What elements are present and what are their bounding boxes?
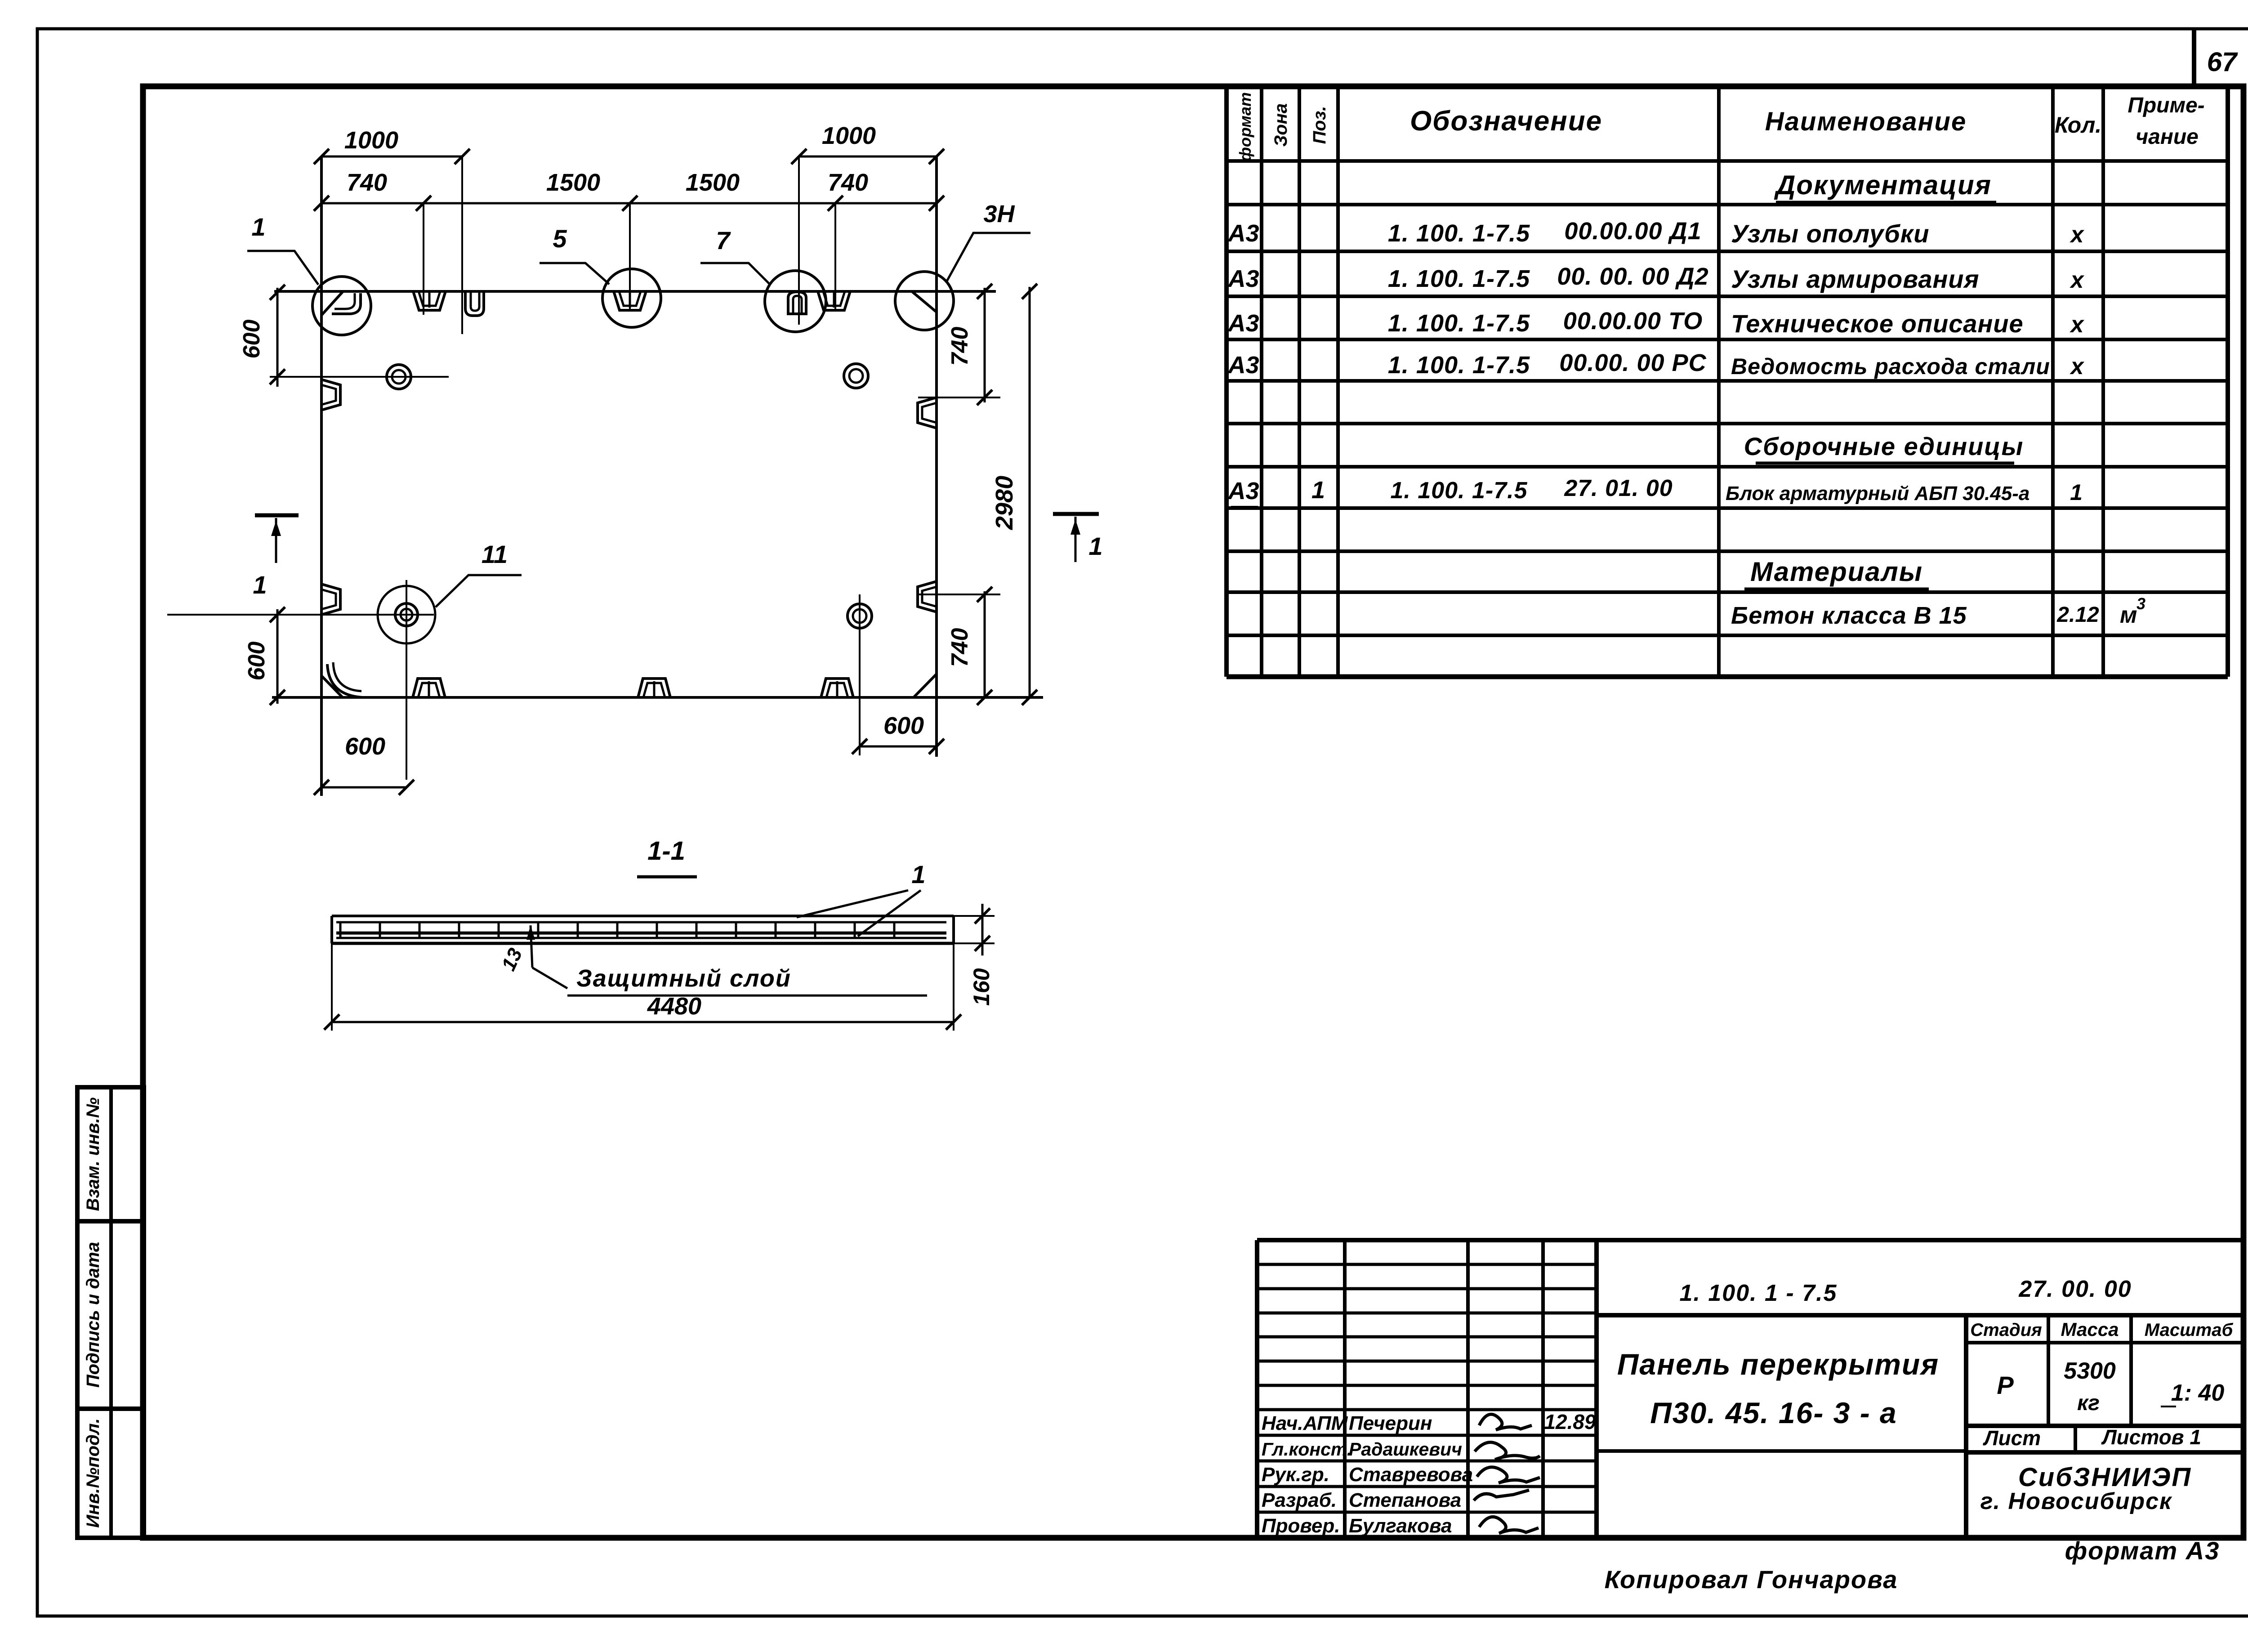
svg-text:Нач.АПМ: Нач.АПМ [1262,1412,1348,1434]
svg-text:x: x [2070,312,2085,338]
svg-text:x: x [2070,267,2085,293]
svg-text:Булгакова: Булгакова [1349,1515,1452,1537]
svg-text:11: 11 [482,540,508,568]
svg-text:1. 100. 1-7.5: 1. 100. 1-7.5 [1388,310,1530,337]
svg-text:Приме-: Приме- [2128,94,2204,117]
svg-text:Кол.: Кол. [2055,112,2101,138]
svg-text:Гл.конст.: Гл.конст. [1262,1439,1352,1460]
svg-text:Рук.гр.: Рук.гр. [1262,1464,1329,1486]
svg-text:1: 1 [1088,532,1102,560]
svg-text:1: 1 [2070,480,2083,505]
svg-text:00.00. 00 РС: 00.00. 00 РС [1559,349,1706,376]
svg-text:Бетон класса В 15: Бетон класса В 15 [1731,602,1967,629]
svg-text:27. 01. 00: 27. 01. 00 [1564,475,1673,501]
svg-text:Взам. инв.№: Взам. инв.№ [83,1097,103,1211]
svg-text:740: 740 [347,169,387,196]
svg-text:00. 00. 00 Д2: 00. 00. 00 Д2 [1557,263,1708,290]
svg-text:Наименование: Наименование [1765,107,1967,136]
svg-text:12.89: 12.89 [1544,1410,1596,1433]
svg-text:А3: А3 [1227,265,1259,292]
svg-text:Лист: Лист [1983,1426,2041,1450]
svg-text:1. 100. 1-7.5: 1. 100. 1-7.5 [1388,220,1530,247]
svg-text:1. 100. 1-7.5: 1. 100. 1-7.5 [1388,352,1530,379]
svg-text:x: x [2070,222,2085,248]
svg-text:Копировал Гончарова: Копировал Гончарова [1605,1565,1898,1594]
svg-text:Радашкевич: Радашкевич [1349,1439,1462,1460]
svg-text:740: 740 [947,327,973,366]
svg-text:А3: А3 [1227,310,1259,337]
svg-text:1. 100. 1 - 7.5: 1. 100. 1 - 7.5 [1680,1280,1838,1306]
svg-text:1. 100. 1-7.5: 1. 100. 1-7.5 [1388,265,1530,292]
svg-text:Документация: Документация [1774,170,1992,200]
svg-text:1: 1 [911,860,925,889]
svg-text:00.00.00 Д1: 00.00.00 Д1 [1564,218,1701,245]
svg-text:5: 5 [553,224,567,253]
svg-text:2.12: 2.12 [2056,603,2099,627]
svg-text:740: 740 [828,169,868,196]
svg-text:Печерин: Печерин [1349,1412,1432,1434]
svg-text:7: 7 [716,226,731,254]
svg-text:67: 67 [2207,47,2238,77]
svg-text:Степанова: Степанова [1349,1489,1461,1511]
svg-text:Панель перекрытия: Панель перекрытия [1617,1348,1939,1381]
svg-text:СибЗНИИЭП: СибЗНИИЭП [2018,1463,2192,1492]
svg-text:Масштаб: Масштаб [2145,1320,2234,1340]
svg-text:Р: Р [1997,1371,2014,1399]
svg-text:Поз.: Поз. [1310,106,1329,144]
svg-text:00.00.00 ТО: 00.00.00 ТО [1563,308,1703,335]
svg-text:Сборочные единицы: Сборочные единицы [1744,432,2024,460]
svg-text:4480: 4480 [647,993,701,1020]
svg-text:1000: 1000 [822,122,876,149]
svg-text:Разраб.: Разраб. [1262,1489,1337,1511]
svg-text:А3: А3 [1227,352,1259,379]
svg-text:600: 600 [239,320,265,359]
svg-text:Провер.: Провер. [1262,1515,1340,1537]
svg-text:Листов 1: Листов 1 [2101,1425,2201,1449]
svg-text:600: 600 [345,733,385,760]
svg-text:м: м [2120,602,2137,628]
svg-text:Техническое описание: Техническое описание [1731,309,2024,338]
svg-text:600: 600 [244,642,270,681]
svg-text:Ставревова: Ставревова [1349,1464,1473,1486]
svg-text:Подпись и дата: Подпись и дата [83,1242,103,1388]
svg-text:740: 740 [947,628,973,667]
svg-text:2980: 2980 [991,476,1018,530]
svg-text:А3: А3 [1227,478,1259,505]
svg-text:кг: кг [2077,1391,2100,1415]
svg-text:Инв.№подл.: Инв.№подл. [83,1418,103,1528]
svg-text:x: x [2070,353,2085,380]
svg-text:формат А3: формат А3 [2065,1536,2220,1565]
svg-text:Материалы: Материалы [1750,557,1923,587]
svg-text:Зона: Зона [1271,103,1291,147]
svg-text:1500: 1500 [546,169,600,196]
svg-text:1: 1 [251,213,265,241]
svg-text:1: 1 [1311,477,1325,504]
svg-text:3: 3 [2136,594,2145,613]
svg-text:Узлы армирования: Узлы армирования [1731,265,1979,293]
svg-text:формат: формат [1236,92,1254,161]
svg-text:1. 100. 1-7.5: 1. 100. 1-7.5 [1391,478,1528,504]
svg-text:чание: чание [2136,125,2199,149]
svg-text:Масса: Масса [2061,1319,2119,1340]
svg-text:1000: 1000 [344,127,398,154]
svg-text:1-1: 1-1 [647,836,685,866]
svg-text:г. Новосибирск: г. Новосибирск [1980,1488,2172,1514]
svg-text:А3: А3 [1227,220,1259,247]
svg-text:3Н: 3Н [983,201,1015,228]
svg-text:160: 160 [969,968,994,1006]
svg-text:1500: 1500 [686,169,740,196]
svg-text:П30. 45. 16- 3 - а: П30. 45. 16- 3 - а [1650,1396,1897,1429]
svg-text:Защитный слой: Защитный слой [576,965,791,992]
svg-text:27. 00. 00: 27. 00. 00 [2018,1276,2132,1302]
svg-text:Блок арматурный АБП 30.45-а: Блок арматурный АБП 30.45-а [1726,482,2029,505]
svg-text:Стадия: Стадия [1970,1320,2042,1340]
svg-text:Ведомость расхода стали: Ведомость расхода стали [1731,354,2050,379]
svg-text:1: 40: 1: 40 [2171,1380,2225,1406]
svg-text:1: 1 [253,571,267,599]
svg-text:600: 600 [883,712,924,739]
svg-text:Узлы ополубки: Узлы ополубки [1731,219,1929,248]
svg-text:Обозначение: Обозначение [1410,106,1602,137]
svg-text:5300: 5300 [2064,1358,2116,1384]
